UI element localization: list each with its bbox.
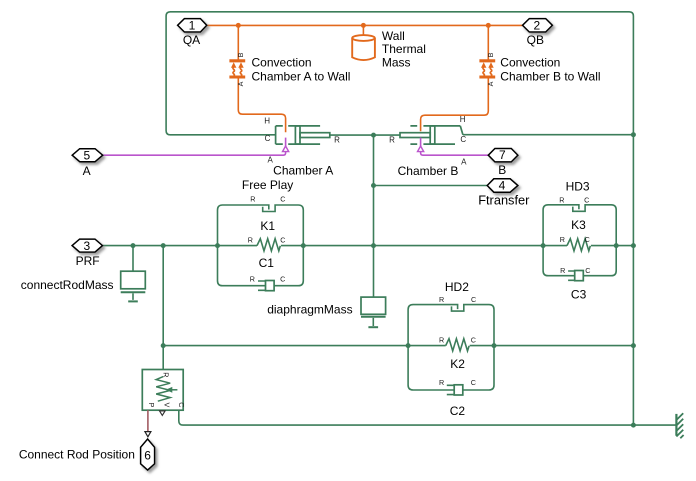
port 1 QA: [178, 19, 207, 32]
svg-text:Convection: Convection: [252, 56, 312, 70]
svg-text:Chamber A: Chamber A: [273, 164, 333, 178]
svg-text:B: B: [498, 163, 506, 177]
wire: outer green loop (chamber A C-pin, top rail, right rail): [166, 12, 633, 425]
wire: convection B to chamber B H pin: [421, 78, 489, 131]
svg-text:H: H: [264, 116, 270, 125]
component: HD3 hard stop branch (K3 block top): [543, 205, 616, 246]
wire: orange thermal top rail QA to QB: [207, 24, 523, 26]
component: translational motion sensor block: [142, 370, 183, 411]
svg-text:QB: QB: [527, 33, 544, 47]
svg-text:R: R: [560, 266, 565, 275]
svg-text:C: C: [460, 135, 466, 144]
wire: rod junction between chambers: [330, 134, 400, 136]
component: spring K1: [257, 239, 280, 251]
junction: orange dot at wall mass tap: [361, 23, 366, 28]
svg-text:P: P: [147, 403, 156, 408]
svg-text:K1: K1: [260, 219, 275, 233]
wire: main middle mechanical line y=245.6: [103, 245, 634, 247]
component: HD2 hard stop branch (K2 block top): [408, 305, 494, 346]
svg-text:Convection: Convection: [500, 56, 560, 70]
component: Chamber A translational converter: [276, 126, 330, 144]
svg-text:QA: QA: [183, 33, 200, 47]
svg-text:Wall: Wall: [382, 29, 405, 43]
wire: magenta chamber B to port 7 B: [421, 152, 489, 156]
svg-text:C: C: [280, 195, 285, 204]
wire: magenta port 5 A to chamber A: [103, 152, 286, 156]
svg-text:Chamber B to Wall: Chamber B to Wall: [500, 69, 600, 83]
component: convection chamber A to wall (convective heat transfer): [229, 61, 245, 77]
wire: lower mechanical line y=345.6: [163, 345, 633, 347]
svg-text:A: A: [486, 81, 495, 86]
wire: chamber B C-pin to right rail: [463, 134, 634, 136]
svg-text:A: A: [236, 81, 245, 86]
pin: chamber B A-pin stub and arrow: [420, 138, 422, 146]
port 4 Ftransfer: [487, 179, 518, 192]
svg-text:C1: C1: [259, 256, 275, 270]
svg-text:C: C: [177, 402, 186, 407]
svg-text:R: R: [439, 378, 444, 387]
svg-text:C: C: [584, 195, 589, 204]
svg-text:3: 3: [84, 239, 91, 253]
pin: signal arrowhead into port 6: [145, 432, 151, 437]
svg-text:Chamber A to Wall: Chamber A to Wall: [252, 69, 351, 83]
junction: orange dot at convection A tap: [236, 23, 241, 28]
component: mechanical reference ground: [676, 413, 683, 438]
svg-text:B: B: [486, 52, 495, 57]
svg-text:C: C: [471, 378, 476, 387]
wire: convection B drop from top rail: [487, 25, 489, 59]
svg-text:K2: K2: [450, 357, 465, 371]
wire: sensor C pin to bottom rail and ground: [179, 410, 677, 425]
svg-text:diaphragmMass: diaphragmMass: [267, 302, 352, 316]
wire: Ftransfer tee to port 4: [374, 185, 488, 187]
svg-text:PRF: PRF: [76, 254, 100, 268]
svg-text:Thermal: Thermal: [382, 42, 426, 56]
component: damper C1 branch (K1 block bottom): [218, 246, 304, 291]
svg-text:5: 5: [84, 148, 91, 162]
wire: wall thermal mass stem: [362, 25, 364, 35]
svg-text:R: R: [250, 275, 255, 284]
component: connectRodMass: [121, 246, 146, 302]
pin: chamber A A-pin stub and arrow: [285, 138, 287, 146]
component: Free Play hard stop branch (K1 block top): [218, 205, 304, 246]
svg-text:C2: C2: [450, 404, 466, 418]
component: diaphragmMass: [361, 297, 386, 327]
svg-text:B: B: [236, 52, 245, 57]
wire: convection A to chamber A H pin: [238, 78, 285, 132]
svg-text:R: R: [334, 135, 340, 144]
svg-text:7: 7: [499, 148, 506, 162]
svg-text:1: 1: [189, 18, 196, 32]
svg-text:C: C: [585, 266, 590, 275]
port 2 QB: [523, 19, 553, 32]
svg-text:4: 4: [499, 179, 506, 193]
svg-text:C: C: [265, 134, 271, 143]
svg-text:C3: C3: [571, 288, 587, 302]
svg-text:R: R: [439, 295, 444, 304]
svg-text:Mass: Mass: [382, 56, 411, 70]
component: Wall Thermal Mass cylinder: [352, 35, 375, 60]
component: spring K3: [567, 239, 590, 251]
port 7 B: [488, 149, 518, 162]
svg-text:R: R: [439, 335, 444, 344]
svg-text:C: C: [585, 235, 590, 244]
component: damper C2 branch (K2 block bottom): [408, 346, 494, 395]
svg-text:C: C: [471, 295, 476, 304]
svg-text:C: C: [280, 235, 285, 244]
svg-text:Connect Rod Position: Connect Rod Position: [19, 448, 135, 462]
svg-text:HD2: HD2: [445, 280, 469, 294]
component: Chamber B translational converter: [400, 126, 463, 144]
junction: orange dot at convection B tap: [486, 23, 491, 28]
wire: left vertical to sensor R: [162, 246, 164, 370]
svg-text:Ftransfer: Ftransfer: [478, 193, 530, 208]
pin: sensor V unconnected arrow: [160, 411, 166, 416]
svg-text:A: A: [461, 157, 467, 166]
wire: sensor P physical signal to port 6: [147, 410, 149, 431]
port 6 Connect Rod Position output: [141, 439, 155, 470]
port 5 A: [72, 149, 103, 162]
svg-text:2: 2: [534, 18, 541, 32]
svg-text:H: H: [460, 115, 466, 124]
svg-text:R: R: [250, 195, 255, 204]
component: spring K2: [446, 339, 469, 351]
wire: R junction vertical down to diaphragmMass: [373, 135, 375, 297]
port 3 PRF: [72, 239, 102, 252]
wire: convection A drop from top rail: [237, 25, 239, 59]
svg-text:C: C: [280, 275, 285, 284]
svg-text:R: R: [559, 195, 564, 204]
svg-text:connectRodMass: connectRodMass: [21, 278, 114, 292]
svg-text:Chamber B: Chamber B: [398, 164, 459, 178]
component: convection chamber B to wall (convective heat transfer): [479, 61, 495, 77]
svg-text:R: R: [389, 135, 395, 144]
junction: green dots: [131, 132, 636, 427]
component: damper C3 branch (K3 block bottom): [543, 246, 616, 281]
svg-text:HD3: HD3: [566, 179, 590, 193]
svg-text:K3: K3: [571, 218, 586, 232]
svg-text:V: V: [163, 403, 172, 408]
svg-text:Free Play: Free Play: [242, 178, 293, 192]
svg-text:C: C: [471, 335, 476, 344]
svg-text:R: R: [248, 235, 253, 244]
svg-text:R: R: [560, 235, 565, 244]
svg-text:6: 6: [144, 449, 151, 463]
svg-text:R: R: [161, 372, 170, 377]
svg-text:A: A: [83, 164, 91, 178]
